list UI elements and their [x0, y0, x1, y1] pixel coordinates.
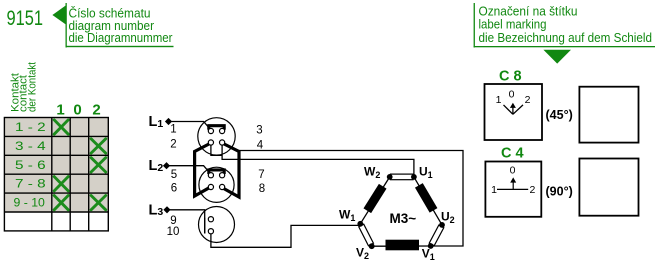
svg-text:M3~: M3~ [390, 211, 417, 226]
svg-text:5 - 6: 5 - 6 [15, 160, 46, 172]
svg-text:7 - 8: 7 - 8 [15, 179, 46, 191]
svg-text:4: 4 [257, 140, 264, 152]
svg-text:6: 6 [171, 183, 177, 195]
svg-text:2: 2 [170, 139, 176, 151]
svg-text:1: 1 [496, 94, 502, 106]
svg-text:(45°): (45°) [546, 108, 573, 122]
svg-text:3 - 4: 3 - 4 [15, 141, 46, 153]
svg-text:1: 1 [170, 124, 176, 136]
svg-text:C 4: C 4 [501, 146, 524, 162]
svg-text:1: 1 [491, 184, 497, 196]
svg-text:die Bezeichnung auf dem Schiel: die Bezeichnung auf dem Schield [479, 30, 653, 45]
svg-text:die Diagramnummer: die Diagramnummer [69, 30, 174, 45]
svg-text:9 - 10: 9 - 10 [14, 198, 45, 210]
svg-text:(90°): (90°) [546, 185, 573, 199]
svg-text:8: 8 [259, 183, 265, 195]
svg-text:10: 10 [167, 226, 180, 238]
svg-text:0: 0 [73, 102, 81, 119]
svg-text:7: 7 [258, 169, 264, 181]
svg-text:0: 0 [509, 89, 515, 101]
svg-text:2: 2 [525, 94, 531, 106]
svg-text:0: 0 [510, 165, 516, 177]
svg-text:der Kontakt: der Kontakt [27, 62, 39, 112]
svg-text:1: 1 [56, 102, 64, 119]
svg-text:C 8: C 8 [499, 69, 522, 85]
svg-text:1 - 2: 1 - 2 [15, 122, 46, 134]
svg-text:9151: 9151 [7, 7, 44, 30]
svg-text:2: 2 [529, 184, 535, 196]
svg-text:3: 3 [256, 125, 262, 137]
svg-text:5: 5 [171, 169, 177, 181]
svg-text:2: 2 [92, 102, 100, 119]
